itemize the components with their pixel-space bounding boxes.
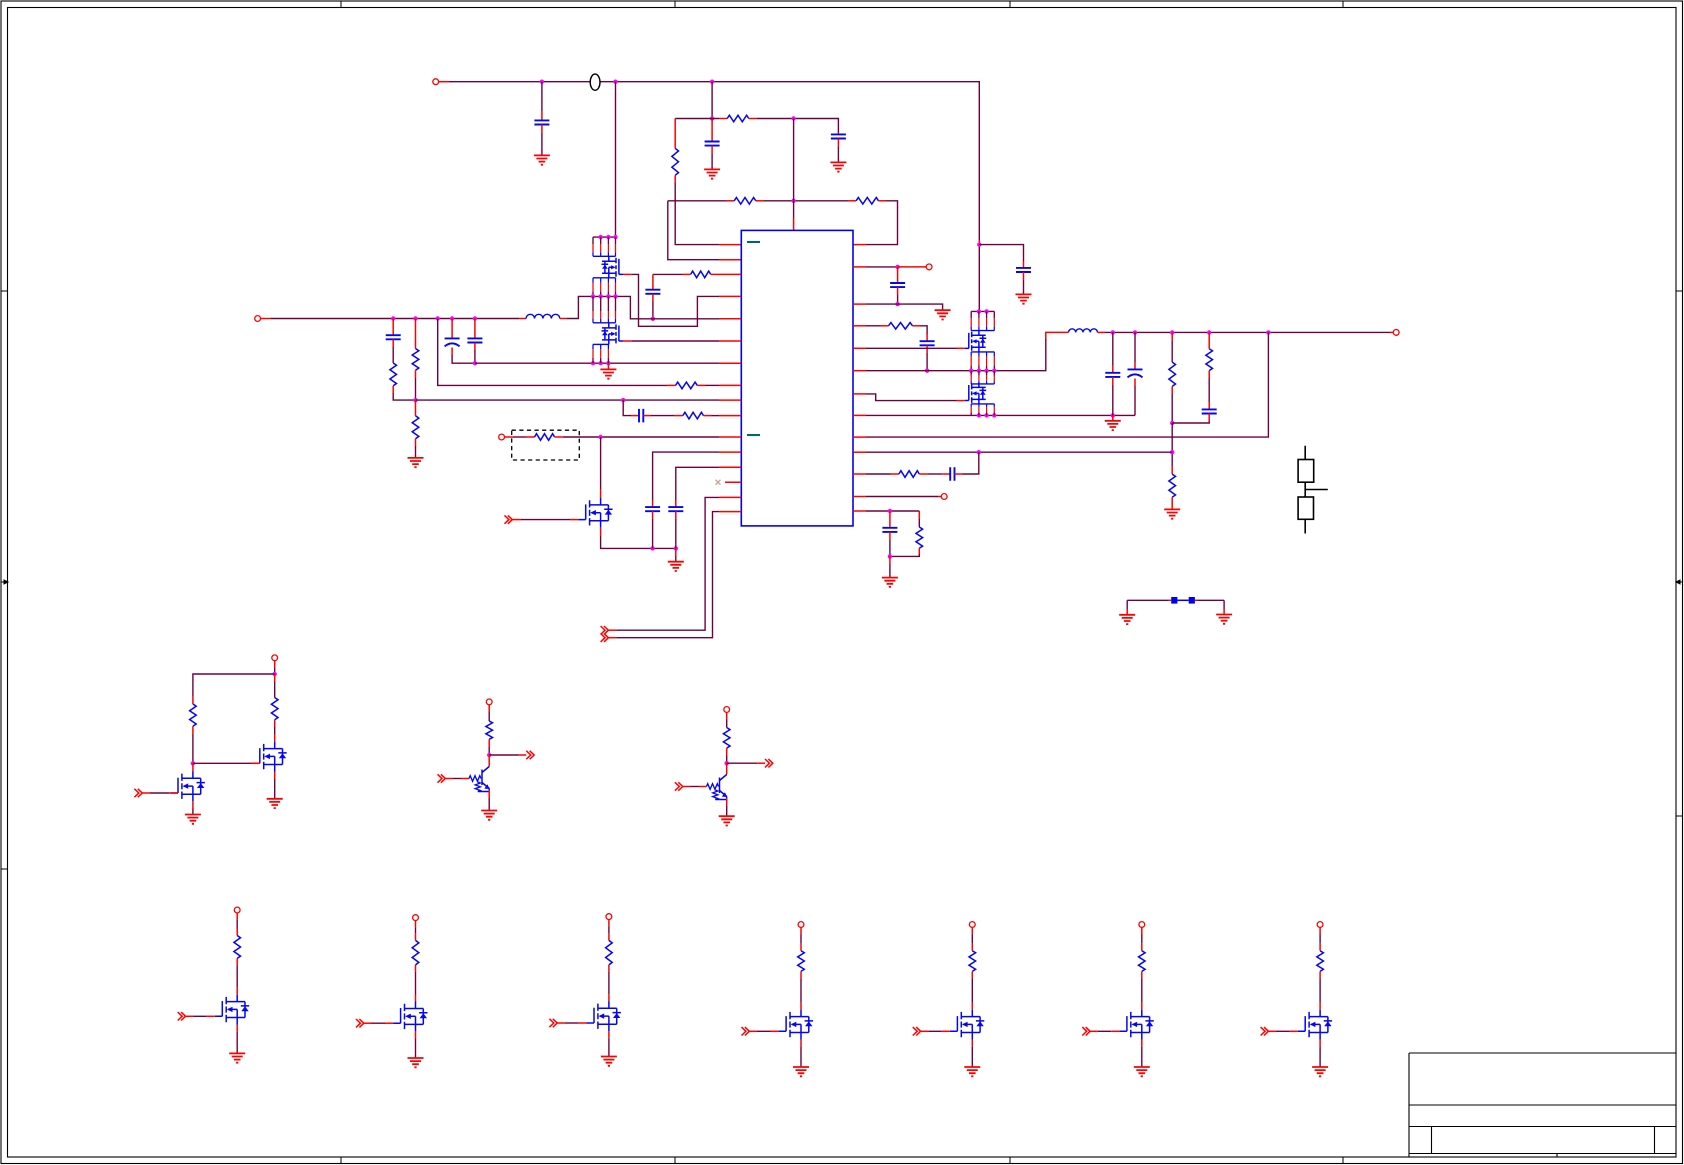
ground G12 — [1119, 615, 1135, 624]
lead cell 4 gate wire — [749, 1030, 757, 1032]
lead R4 bottom — [674, 175, 676, 183]
lead J9 — [726, 712, 728, 719]
lead net tie right — [1195, 599, 1198, 601]
transistor Q11 cell 1 — [215, 995, 249, 1025]
wire Q7 source to ground — [192, 809, 194, 815]
pin stub IC left pin7 — [719, 362, 741, 364]
lead offpage pin15 — [608, 629, 616, 631]
wire IC pin15 offpage — [616, 497, 719, 630]
lead R21 top — [236, 929, 238, 936]
junction row2 — [791, 116, 795, 120]
wire pin R11 — [866, 473, 891, 475]
junctions output rail — [1111, 330, 1271, 334]
lead R13 bottom — [1171, 386, 1173, 394]
lead C15 bottom — [1134, 379, 1136, 387]
wire C15 top — [1134, 332, 1136, 362]
wire R13 top — [1171, 341, 1173, 362]
IC U1 body — [741, 230, 853, 526]
wire R11 to IC pin L11 — [563, 436, 719, 438]
zone ticks left edge — [1, 291, 8, 869]
offpage arrow Q9 out — [765, 759, 773, 767]
ground G15 — [185, 815, 201, 824]
offpage arrow Q8 out — [526, 751, 534, 759]
resistor R21 cell 1 — [234, 936, 241, 959]
wire cell 1 upper — [236, 920, 238, 929]
lead C14 top — [1112, 365, 1114, 373]
lead Q4 gate — [957, 400, 965, 402]
capacitor C14 — [1105, 373, 1120, 377]
lead cell 1 gate wire — [186, 1015, 194, 1017]
ground G4 — [408, 458, 424, 467]
junction pin R13 — [888, 509, 892, 513]
lead L2 left — [1052, 331, 1069, 333]
wire row3 to IC pin R1 — [866, 201, 898, 245]
zone ticks bottom edge — [341, 1158, 1343, 1164]
lead Q5 drain — [600, 489, 602, 498]
wire cell 2 upper — [415, 928, 417, 934]
rail Q4 source — [971, 403, 994, 405]
lead R9 right — [711, 273, 719, 275]
lead Q9 out — [757, 762, 765, 764]
lead J8 — [488, 705, 490, 712]
ground G7 — [935, 310, 951, 319]
lead L1 left — [519, 318, 526, 320]
lead Q14 gate — [771, 1030, 779, 1032]
ground G13 — [1216, 615, 1232, 624]
junction node FB pinR10 — [1170, 450, 1174, 454]
wire Q3 drain bus — [971, 310, 994, 312]
lead J6 — [898, 266, 927, 268]
lead Q9 base — [699, 786, 707, 788]
wire R13 to node FB — [1171, 394, 1173, 423]
ground G24 cell 4 — [793, 1067, 809, 1076]
wire Q9 out — [727, 762, 758, 764]
lead R19 bottom — [274, 720, 276, 727]
transistor Q2 — [602, 323, 624, 345]
offpage arrow Q8 base — [438, 774, 446, 782]
wire rail to node A — [711, 82, 713, 119]
pin stub IC left pin10 — [719, 415, 741, 417]
wire Q5 source to caps — [601, 536, 676, 548]
junction gnd bus left — [473, 361, 477, 365]
connector J12 cell 2 — [413, 915, 419, 921]
connector J8 — [486, 699, 492, 705]
lead R3 left — [848, 200, 856, 202]
wire to ground G11 — [889, 564, 891, 577]
resistor R10 — [683, 412, 704, 419]
lead C4 top — [392, 319, 394, 336]
connector J3 — [499, 434, 505, 440]
lead C8 top — [675, 500, 677, 507]
lead C12 top — [926, 334, 928, 341]
lead Q5 gate wire a — [512, 519, 521, 521]
rail Q2 source — [593, 343, 608, 345]
junctions right gnd bus — [977, 413, 1115, 417]
wire cell 4 source to ground — [800, 1047, 802, 1067]
resistor R26 cell 6 — [1139, 951, 1146, 972]
wire cell 4 mid — [800, 978, 802, 1002]
pin stub IC right pin6 — [853, 370, 866, 372]
capacitor C17 — [950, 467, 954, 481]
wire row3 to IC pin L2 — [668, 201, 719, 260]
lead Q8 emitter — [488, 790, 490, 798]
lead Q8 out — [519, 754, 527, 756]
junction pin R3 — [895, 302, 899, 306]
lead Q17 source — [1319, 1040, 1321, 1047]
wire Q7 node to Q6 gate — [193, 762, 252, 764]
lead R14 top — [1171, 466, 1173, 474]
junction row3 — [791, 199, 795, 203]
lead R1 left — [719, 118, 727, 120]
lead Q7 gate — [170, 792, 178, 794]
connector J1 top input — [433, 79, 439, 85]
connector J17 cell 7 — [1317, 922, 1323, 928]
ground G23 cell 3 — [601, 1057, 617, 1066]
wire to R19 — [274, 682, 276, 698]
lead Q11 drain — [236, 988, 238, 995]
lead L2 right — [1098, 331, 1106, 333]
lead Q9 base wire — [683, 786, 691, 788]
offpage arrow pin15 — [601, 626, 609, 634]
wire Q7 gate — [150, 792, 170, 794]
lead R9 left — [683, 273, 691, 275]
capacitor C10 — [639, 409, 643, 423]
ground G26 cell 6 — [1134, 1067, 1150, 1076]
transistor Q3 — [965, 330, 987, 352]
pin stub IC left pin13 — [719, 466, 741, 468]
wire cell 3 source to ground — [608, 1038, 610, 1056]
pins Q2 source ladder — [593, 344, 608, 363]
lead R11 right — [555, 436, 563, 438]
wire C1 to ground — [541, 133, 543, 155]
ground G6 — [668, 562, 684, 571]
pins Q4 source ladder — [971, 404, 994, 416]
offpage arrow cell 5 gate — [913, 1027, 921, 1035]
wire R7 to ground — [415, 446, 417, 458]
wire C2 to ground — [711, 154, 713, 169]
lead R8 right — [697, 384, 705, 386]
lead Q2 gate — [623, 340, 631, 342]
connector J13 cell 3 — [606, 914, 612, 920]
ground G16 — [481, 811, 497, 820]
lead Q16 source — [1141, 1040, 1143, 1047]
pin stub IC right pin8 — [853, 414, 866, 416]
junctions Q1 drain bus — [599, 235, 618, 239]
pin stub IC left pin11 — [719, 436, 741, 438]
wire row3 left — [668, 200, 726, 202]
net tie NT1 — [1171, 597, 1195, 604]
lead C7 top — [652, 500, 654, 507]
lead net tie left — [1169, 599, 1172, 601]
ground G9 — [1016, 294, 1032, 303]
wire row2 right — [757, 119, 838, 134]
lead C12 bottom — [926, 345, 928, 353]
lead Q14 source — [800, 1040, 802, 1047]
offpage arrow Q9 base — [675, 782, 683, 790]
wire group A left branch — [193, 674, 275, 696]
lead C13 bottom — [1023, 272, 1025, 280]
wire Q9 base — [691, 786, 699, 788]
resistor R9 — [691, 271, 711, 278]
lead R26 top — [1141, 944, 1143, 951]
pin stub IC right pin2 — [853, 266, 866, 268]
transistor Q5 — [578, 498, 612, 528]
transistor Q15 cell 5 — [950, 1010, 984, 1040]
lead R17 top — [918, 511, 920, 519]
wire output rail — [1105, 331, 1390, 333]
ground G17 — [719, 816, 735, 825]
lead Q13 source — [608, 1031, 610, 1038]
wire cell 6 mid — [1141, 978, 1143, 1002]
lead C7 bottom — [652, 511, 654, 519]
pin stub IC right pin12 — [853, 496, 866, 498]
offpage arrow cell 1 gate — [178, 1012, 186, 1020]
wire cell 3 mid — [608, 972, 610, 994]
wire row2 left — [675, 118, 719, 120]
lead L1 right — [560, 318, 567, 320]
connector J2 input — [255, 316, 261, 322]
ground G11 — [882, 578, 898, 587]
wire R5 to row 400 — [393, 393, 415, 400]
center arrow right edge — [1676, 580, 1683, 584]
wire cell 6 source to ground — [1141, 1047, 1143, 1067]
capacitor C3 — [831, 134, 846, 138]
ground G5 — [600, 369, 616, 378]
ground G10 — [1164, 509, 1180, 518]
ground G1 — [534, 155, 550, 164]
lead R18 top — [192, 696, 194, 704]
ferrite bead FB1 — [590, 74, 600, 90]
wire cell 3 gate — [565, 1022, 579, 1024]
lead C11 top — [897, 267, 899, 283]
wire R21 to node — [726, 756, 728, 764]
wire R20 to node — [488, 747, 490, 755]
wire J9 to R21 — [726, 720, 728, 728]
wire pin R7 to Q4 gate — [866, 394, 957, 401]
lead R23 bottom — [608, 965, 610, 972]
lead C5 top — [451, 319, 453, 339]
zone ticks top edge — [341, 1, 1343, 8]
resistor R7 — [412, 416, 419, 439]
transistor Q14 cell 4 — [779, 1010, 813, 1040]
resistor R16 — [899, 471, 919, 478]
pins Q1 drain ladder — [593, 237, 616, 256]
wire R15 to C16 — [1208, 378, 1210, 402]
ground G2 — [704, 169, 720, 178]
lead Q5 gate wire b — [570, 519, 578, 521]
lead Q7 source — [192, 801, 194, 808]
wire Q5 drain — [600, 437, 602, 489]
wire C4 to R5 — [392, 347, 394, 363]
wire Q9 emitter to ground — [726, 806, 728, 816]
wire R6 to row 400 — [415, 378, 417, 400]
junction rail cap node — [977, 242, 981, 246]
resistor R17 — [916, 527, 923, 548]
rail Q1 drain — [593, 255, 616, 257]
wire cell 2 gate — [372, 1022, 386, 1024]
junctions Q5 source row — [650, 546, 678, 550]
wire C14 top — [1112, 332, 1114, 365]
junction node A — [710, 116, 714, 120]
capacitor C13 — [1016, 268, 1031, 272]
lead R12 left — [881, 325, 889, 327]
wire C5 to gnd bus — [452, 355, 475, 363]
lead R21 bottom — [726, 748, 728, 755]
lead ground bus drop — [607, 363, 609, 369]
lead R6 bottom — [415, 370, 417, 378]
title block — [1409, 1053, 1676, 1157]
wire cell 5 upper — [971, 935, 973, 944]
wire J8 to R20 — [488, 712, 490, 721]
lead cell 6 gate wire — [1090, 1030, 1098, 1032]
wire J7 to node — [274, 668, 276, 674]
lead R2 right — [756, 200, 764, 202]
pin stub IC right pin13 — [853, 510, 866, 512]
lead Q11 gate — [207, 1015, 215, 1017]
lead Q11 source — [236, 1025, 238, 1032]
resistor R23 cell 3 — [606, 940, 613, 965]
connector J7 — [272, 655, 278, 661]
wire cell 7 source to ground — [1319, 1047, 1321, 1067]
wire to ground G6 — [675, 556, 677, 562]
wire node A to IC top pin — [793, 119, 795, 219]
wire R18 to Q7 drain node — [192, 734, 194, 763]
wire cell 3 upper — [608, 927, 610, 934]
wire cell 2 source to ground — [415, 1039, 417, 1058]
connector J16 cell 6 — [1139, 922, 1145, 928]
pin stub IC left pin4 — [719, 295, 741, 297]
offpage arrow Q7 gate — [134, 789, 142, 797]
lead R20 bottom — [488, 739, 490, 747]
lead Q16 drain — [1141, 1003, 1143, 1010]
wire C12 to mid bus — [926, 353, 928, 371]
rail Q1 source — [593, 277, 616, 279]
transistor Q7 — [171, 771, 205, 801]
wire C7 to source row — [652, 519, 654, 548]
offpage arrow cell 4 gate — [742, 1027, 750, 1035]
lead C5 bottom — [451, 348, 453, 356]
junctions top rail — [540, 80, 715, 84]
capacitor C2 — [705, 142, 720, 146]
inductor L1 — [526, 314, 560, 318]
lead Q17 drain — [1319, 1003, 1321, 1010]
lead C15 top — [1134, 362, 1136, 369]
lead net tie gnd right — [1223, 609, 1225, 614]
wire R4 to IC pin L1 — [675, 183, 719, 245]
resistor R22 cell 2 — [412, 940, 419, 965]
wire row 400 to IC — [416, 399, 720, 401]
lead to ground G11 — [889, 556, 891, 564]
connector J9 — [724, 707, 730, 713]
lead R25 top — [971, 944, 973, 951]
lead R1 right — [749, 118, 757, 120]
lead C4 bottom — [392, 339, 394, 347]
junctions SW bus left — [591, 294, 618, 298]
pin stub IC left pin16 — [719, 511, 741, 513]
wire row3 mid — [764, 200, 848, 202]
wire top rail — [449, 82, 979, 240]
lead Q7 gate wire — [142, 792, 150, 794]
junctions right SW bus — [969, 369, 997, 373]
resistor R14 — [1169, 474, 1176, 497]
lead Q13 drain — [608, 994, 610, 1001]
lead R13 top — [1171, 332, 1173, 341]
lead Q12 drain — [415, 995, 417, 1002]
junction C18 R17 — [888, 554, 892, 558]
lead Q17 gate — [1290, 1030, 1298, 1032]
wire C18 bottom — [889, 540, 891, 556]
pin stub IC left pin14 NC — [725, 481, 741, 483]
lead C6 bottom — [474, 343, 476, 351]
wire C16 to node FB — [1172, 421, 1209, 423]
wire net tie gnd right — [1223, 600, 1225, 609]
lead Q8 base wire — [445, 778, 453, 780]
pins Q2 drain ladder — [593, 296, 616, 322]
lead R8 left — [667, 384, 676, 386]
inductor L2 — [1069, 329, 1098, 333]
wire cell 1 source to ground — [236, 1032, 238, 1054]
pin stub IC left pin5 — [719, 318, 741, 320]
lead right gnd drop — [1112, 415, 1114, 420]
capacitor C18 — [882, 528, 897, 532]
center arrow left edge — [1, 580, 8, 584]
capacitor C11 — [890, 283, 905, 287]
lead J7 — [274, 661, 276, 668]
wire pin R13 — [866, 510, 919, 512]
resistor R19 — [271, 698, 278, 720]
lead R2 left — [726, 200, 734, 202]
lead C18 top — [889, 511, 891, 528]
lead C9 top — [652, 274, 654, 289]
lead Q3 gate — [957, 347, 965, 349]
wire IC pin L13 to C8 — [676, 467, 719, 500]
wire C11 to pin R3 row — [897, 295, 899, 304]
lead C3 top — [837, 133, 839, 134]
wire Q5 gate — [521, 519, 570, 521]
lead Q5 source — [600, 528, 602, 536]
offpage arrow cell 6 gate — [1082, 1027, 1090, 1035]
wire cell 1 gate — [193, 1015, 207, 1017]
lead R19 top — [274, 674, 276, 682]
wire cell 4 gate — [757, 1030, 771, 1032]
capacitor C1 — [534, 120, 549, 124]
ground G22 cell 2 — [408, 1058, 424, 1067]
lead R22 top — [415, 933, 417, 940]
lead cell 2 gate wire — [364, 1022, 372, 1024]
transistor Q4 — [965, 382, 987, 404]
ground G3 — [830, 162, 846, 171]
lead R7 top — [415, 400, 417, 416]
lead C9 bottom — [652, 294, 654, 301]
junctions ground bus — [591, 361, 611, 365]
lead C8 bottom — [675, 511, 677, 519]
capacitor C7 — [645, 507, 660, 511]
lead Q15 drain — [971, 1003, 973, 1010]
wire SW row to IC pin L5 — [645, 318, 719, 320]
wire C17 up to pin R10 row — [963, 452, 979, 474]
wire bus to row 385 — [438, 319, 667, 386]
resistor R24 cell 4 — [798, 951, 805, 972]
wire pin R12 — [866, 496, 938, 498]
resistor R18 — [190, 704, 197, 726]
wire R17 bottom — [890, 554, 919, 556]
wire right gnd bus — [866, 414, 1135, 416]
junctions Q3 drain bus — [977, 309, 989, 313]
junction row 400 left — [413, 398, 417, 402]
resistor R27 cell 7 — [1317, 951, 1324, 972]
wire C8 to source row — [675, 519, 677, 548]
no-connect X pin14 — [716, 480, 721, 485]
